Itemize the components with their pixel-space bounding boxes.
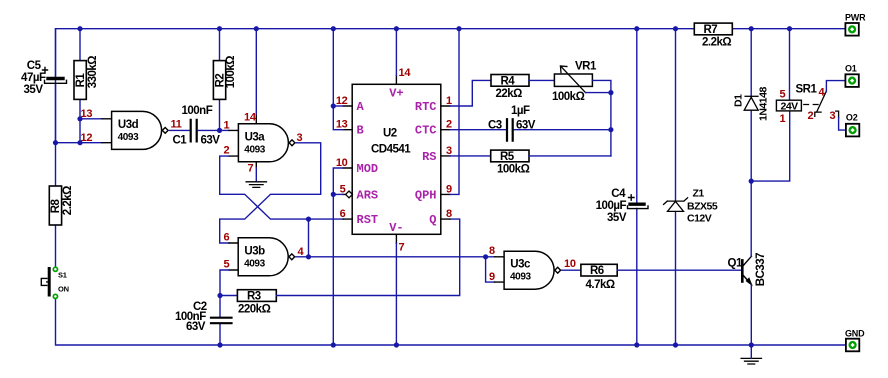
svg-text:24V: 24V [781,100,799,112]
wire U3a pin2 loop [220,156,309,219]
svg-text:U3c: U3c [510,259,531,271]
wire U3a pin14 to rail [255,29,257,115]
svg-text:BZX55: BZX55 [687,201,718,213]
svg-text:4093: 4093 [244,144,265,155]
U2 pin stubs left [343,106,352,219]
wire RST line [309,218,344,220]
svg-text:R3: R3 [247,291,261,303]
wire U3b pin5 loop [220,270,229,345]
svg-text:4093: 4093 [510,272,531,283]
svg-text:BC337: BC337 [755,253,767,286]
svg-text:2: 2 [808,110,814,122]
wire top rail left [56,29,695,143]
capacitor C5 [43,68,67,84]
resistor R6 [581,264,617,276]
svg-text:7: 7 [399,242,405,254]
gate U3c body [504,251,560,289]
svg-text:1µF: 1µF [511,105,530,117]
wire C4 branch [636,29,638,345]
wire U3b out feedback [308,219,310,257]
relay SR1 coil [776,100,801,111]
wire O2 to pin3 [839,118,846,131]
potentiometer VR1 [554,74,592,86]
svg-text:8: 8 [489,245,495,257]
svg-text:4.7kΩ: 4.7kΩ [586,279,615,291]
wire VR1 right [586,80,611,155]
svg-text:R4: R4 [501,76,516,88]
wire U3b out to U3c [296,256,495,258]
svg-text:10: 10 [564,258,576,270]
svg-text:Q1: Q1 [728,258,743,270]
svg-text:5: 5 [340,183,346,195]
node dot ARS [331,192,336,197]
node dot VR1 wiper [608,90,613,95]
svg-text:C12V: C12V [687,213,712,225]
node dot RST/U3b out [306,217,311,222]
terminal O1 [845,74,858,87]
node junction dots top rail [77,26,792,31]
wire R2 branch [219,29,221,131]
svg-text:2: 2 [446,119,452,131]
node dot C3 [608,127,613,132]
node dot C1/R2/pin1 [217,128,222,133]
gate U3a body [238,124,295,162]
svg-text:9: 9 [489,271,495,283]
svg-text:S1: S1 [58,271,67,280]
svg-text:R1: R1 [75,73,87,88]
svg-text:63V: 63V [186,321,206,333]
wire RS to R5 [450,155,491,157]
relay SR1 contact pin2 [815,112,821,116]
label C5 value [21,60,46,96]
node dot R1/pin12 [77,140,82,145]
wire D1 branch top [750,29,752,256]
svg-text:C5: C5 [27,60,42,72]
gate U3a pin stubs [229,115,256,168]
wire A B from rail [333,29,343,130]
wire QPH to rail [450,29,459,195]
svg-text:100kΩ: 100kΩ [497,164,530,176]
svg-text:U3b: U3b [244,245,265,257]
terminal GND [846,339,859,352]
svg-text:2: 2 [224,145,230,157]
terminal PWR [845,23,858,36]
svg-text:63V: 63V [516,120,536,132]
svg-text:SR1: SR1 [796,84,818,96]
svg-text:C3: C3 [488,120,502,132]
svg-text:22kΩ: 22kΩ [496,88,523,100]
svg-text:10: 10 [336,157,348,169]
wire RTC to R4 [450,80,491,106]
resistor R8 [55,143,57,268]
svg-text:U2: U2 [383,128,397,140]
U2 pin stubs top bottom [395,75,397,243]
svg-text:14: 14 [244,112,257,124]
U2 ARS bubble [346,191,353,198]
svg-text:PWR: PWR [845,12,866,22]
node dot D1 coil [749,179,754,184]
gate U3d body [112,111,169,149]
wire U3d pin12 [56,142,103,144]
resistor R2 [213,61,225,100]
wire coil bottom link [751,111,790,181]
node dot A [331,103,336,108]
svg-text:C4: C4 [611,188,626,200]
wire MOD to ARS to ground rail [333,168,343,345]
svg-text:220kΩ: 220kΩ [238,304,271,316]
wire CTC to C3 [450,129,611,131]
zener Z1 [664,198,688,212]
label C4 [596,188,627,224]
resistor R1 [74,61,86,100]
svg-text:Q: Q [429,213,436,227]
resistor R5 [491,150,529,162]
wire V+ to rail [395,29,397,76]
svg-text:1N4148: 1N4148 [758,87,770,121]
svg-text:12: 12 [336,95,348,107]
ground symbol bottom [741,358,761,364]
relay SR1 link dashes [804,104,818,106]
wire U3d pin13 [80,118,102,120]
resistor R4 [491,75,529,87]
svg-text:63V: 63V [201,135,221,147]
capacitor C4 [628,195,649,209]
wire A stub [333,105,343,107]
wire U3c out to R6 [562,269,581,271]
svg-text:V-: V- [389,221,403,235]
svg-text:1: 1 [446,95,452,107]
VR1 wiper arrow [560,66,585,93]
relay SR1 switch blade [817,92,827,112]
svg-text:100kΩ: 100kΩ [552,91,585,103]
svg-text:GND: GND [845,328,865,338]
svg-text:2.2kΩ: 2.2kΩ [702,37,731,49]
svg-text:3: 3 [830,110,836,122]
svg-text:1: 1 [780,113,786,125]
transistor Q1 [742,256,751,285]
svg-text:O2: O2 [846,113,858,123]
resistor R3 [237,290,276,302]
switch S1 [41,269,49,296]
svg-text:14: 14 [399,67,412,79]
svg-text:CTC: CTC [415,124,437,138]
svg-text:RTC: RTC [415,100,437,114]
ground below U3a [246,182,266,188]
U2 pin stubs right [441,106,450,219]
svg-text:RS: RS [422,150,436,164]
svg-text:11: 11 [171,119,182,131]
capacitor C1 [191,120,197,141]
terminal O2 [846,124,859,137]
node dot R1/pin13 [77,116,82,121]
wire R1 branch vertical [79,29,81,143]
svg-text:47µF: 47µF [21,72,46,84]
wire top rail right [733,28,846,30]
svg-text:1: 1 [224,120,230,132]
svg-text:35V: 35V [607,212,627,224]
wire ARS stub [333,193,343,195]
gate U3c pin stubs [495,257,505,282]
svg-text:U3a: U3a [245,131,266,143]
capacitor C2 [211,318,232,324]
wire U3c pin9 loop [486,257,495,282]
node dot C5/pin12 [53,140,58,145]
svg-text:12: 12 [81,132,93,144]
svg-text:R6: R6 [590,265,604,277]
diode D1 [744,96,758,110]
relay SR1 contact pin3 [836,111,839,117]
svg-text:V+: V+ [389,87,403,101]
wire gnd stem [750,345,752,358]
svg-text:RST: RST [357,213,379,227]
wire Z1 branch [675,29,677,345]
node dot U3b out [306,254,311,259]
svg-text:35V: 35V [24,84,44,96]
svg-text:U3d: U3d [118,119,139,131]
svg-text:QPH: QPH [415,188,437,202]
svg-text:2.2kΩ: 2.2kΩ [62,186,74,215]
wire O1 to blade [826,81,845,92]
wire V- to bottom rail [395,243,397,345]
wire bottom rail [56,298,847,345]
wire C5 branch vertical [55,29,57,143]
svg-text:Z1: Z1 [693,187,705,199]
svg-text:6: 6 [224,232,230,244]
node junction dots bottom rail [217,342,754,347]
gate U3b pin stubs [229,243,238,270]
wire U3a pin7 to ground [255,168,257,182]
wire R4 to VR1 [529,79,554,81]
wire U3d out to C1 [170,129,190,131]
svg-text:D1: D1 [733,94,745,107]
svg-text:8: 8 [446,208,452,220]
gate U3b body [238,238,295,276]
wire coil top [789,29,791,101]
wire R3 left [220,295,237,297]
svg-text:ARS: ARS [357,188,379,202]
wire Q1 emitter [750,285,752,345]
wire C1 to U3a pin1 [198,129,229,131]
svg-text:7: 7 [248,163,254,175]
svg-text:5: 5 [780,89,786,101]
svg-text:4093: 4093 [244,258,265,269]
op-amp U3d pin stubs [102,119,112,143]
svg-text:MOD: MOD [357,162,379,176]
node dot U3c pin9 loop [483,254,488,259]
svg-text:C1: C1 [173,135,188,147]
svg-text:R7: R7 [704,24,718,36]
svg-text:4093: 4093 [118,132,139,143]
svg-text:100nF: 100nF [182,105,213,117]
wire U3a out crossover [220,143,321,243]
node dot R3/C2 [217,293,222,298]
wire R3 to Q output riser [276,219,459,295]
svg-text:13: 13 [336,119,348,131]
capacitor C3 [507,119,513,141]
svg-text:6: 6 [340,208,346,220]
svg-text:CD4541: CD4541 [371,144,411,156]
svg-text:13: 13 [81,108,93,120]
svg-text:VR1: VR1 [575,61,597,73]
IC U2 CD4541 box [352,84,441,234]
svg-text:9: 9 [446,183,452,195]
svg-text:ON: ON [58,285,69,294]
svg-text:5: 5 [224,259,230,271]
svg-text:R8: R8 [50,198,62,213]
svg-text:R5: R5 [500,151,515,163]
wire Q1 collector [750,255,752,257]
svg-text:330kΩ: 330kΩ [87,56,99,89]
svg-text:A: A [357,100,365,114]
svg-text:O1: O1 [845,63,857,73]
resistor R7 [694,23,732,35]
svg-text:100µF: 100µF [596,200,627,212]
svg-text:100kΩ: 100kΩ [225,56,237,89]
svg-text:B: B [357,124,364,138]
wire R6 to Q1 base [617,269,741,271]
wire R5 right [529,155,611,157]
